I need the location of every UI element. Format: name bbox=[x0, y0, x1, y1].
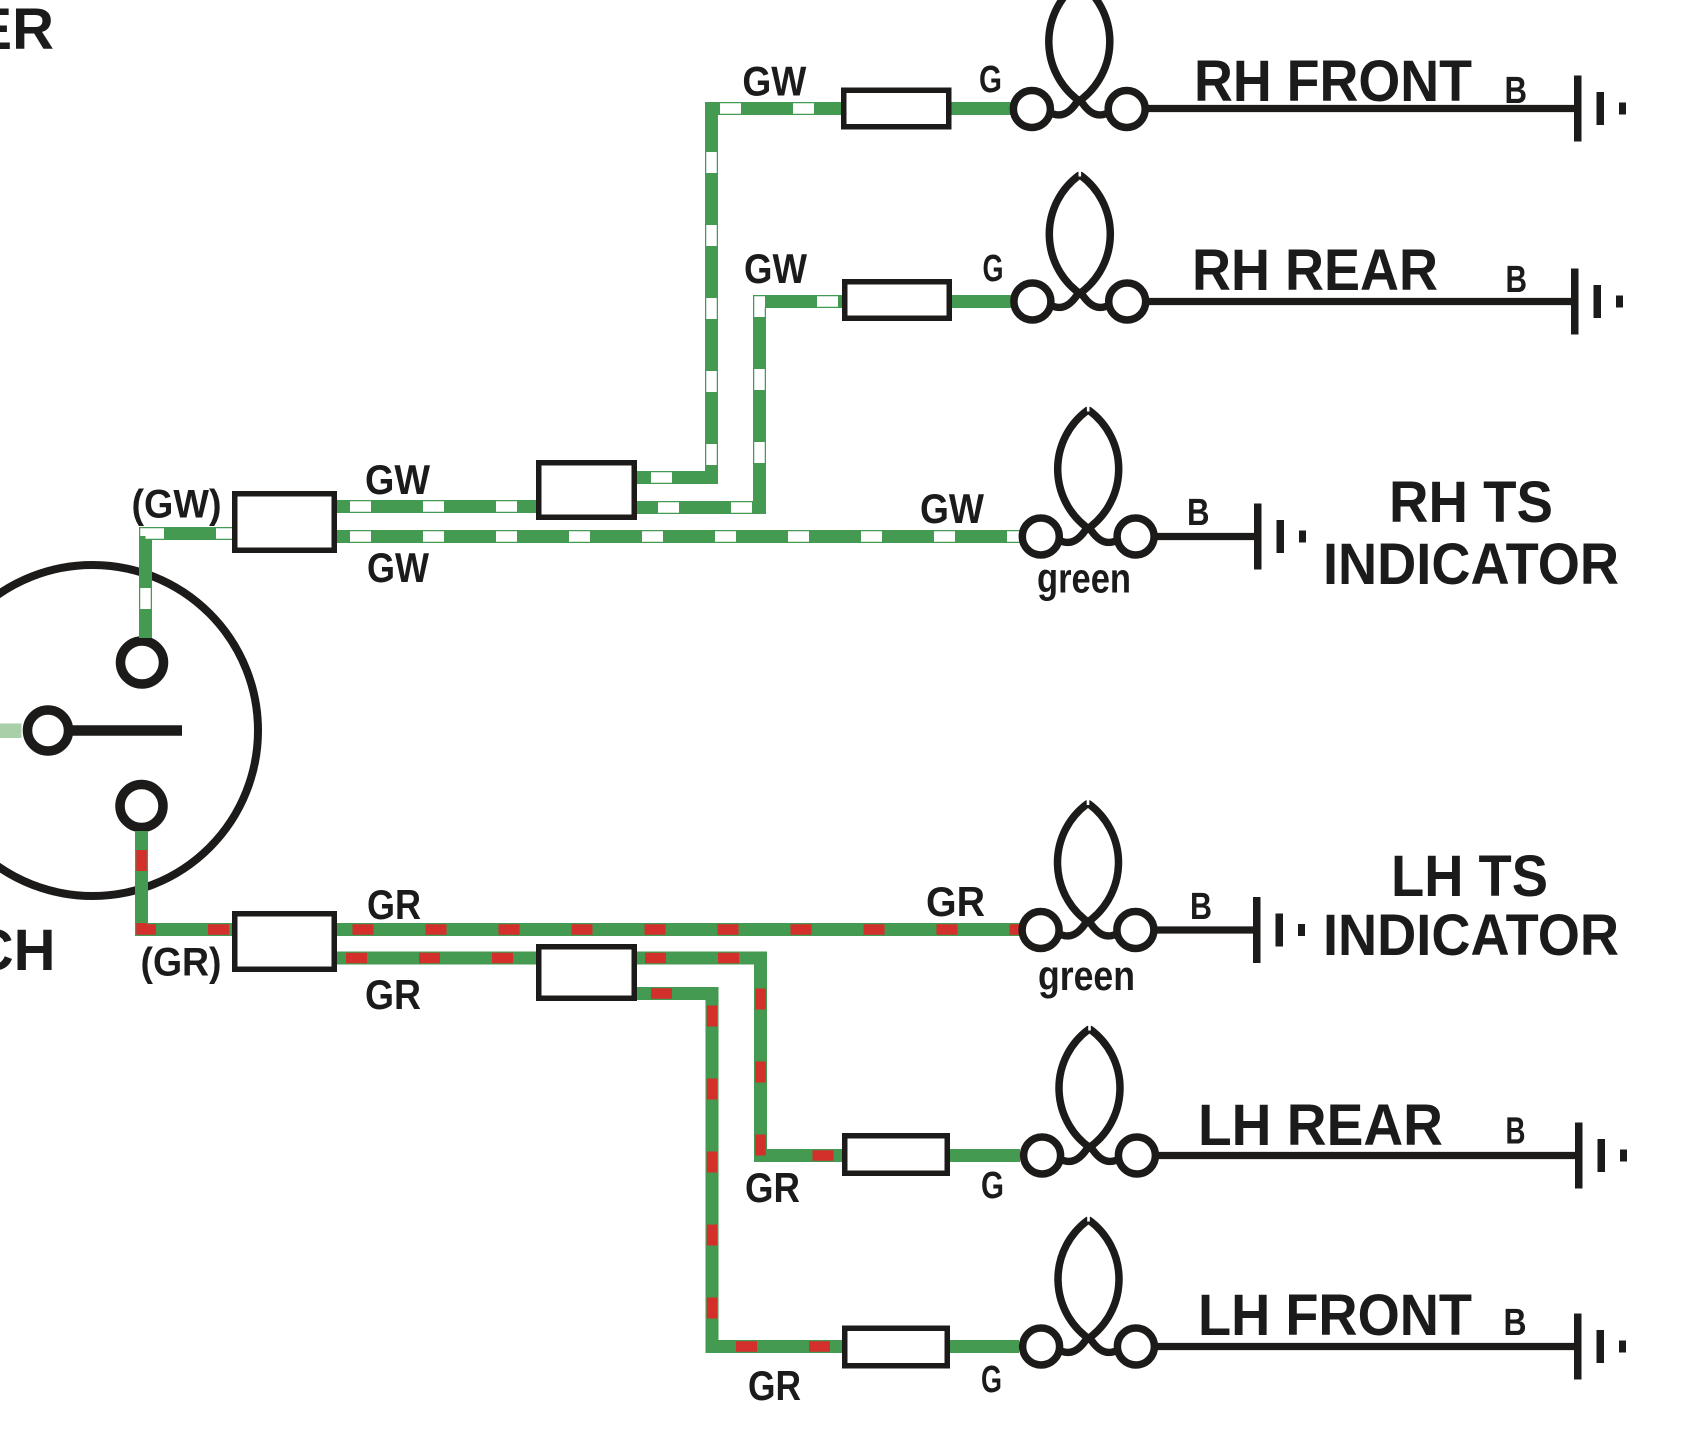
svg-text:GW: GW bbox=[365, 456, 430, 503]
svg-text:(GW): (GW) bbox=[132, 483, 222, 527]
svg-text:B: B bbox=[1504, 1302, 1527, 1344]
connector LH FRONT bbox=[845, 1328, 948, 1366]
wire GR junction to LH REAR bbox=[637, 958, 842, 1156]
connector LH REAR bbox=[845, 1136, 948, 1174]
svg-text:RH REAR: RH REAR bbox=[1192, 238, 1438, 303]
lamp LH TS indicator bbox=[1022, 796, 1154, 949]
wire G LH REAR connector to lamp bbox=[950, 1149, 1020, 1162]
svg-text:B: B bbox=[1505, 70, 1528, 112]
connector RH FRONT bbox=[844, 90, 949, 127]
svg-text:G: G bbox=[979, 59, 1002, 101]
svg-text:GR: GR bbox=[365, 971, 421, 1018]
black wire RH REAR to ground bbox=[1147, 298, 1572, 305]
connector (GR) bbox=[235, 914, 335, 970]
lamp RH TS indicator bbox=[1022, 403, 1154, 556]
svg-text:LH FRONT: LH FRONT bbox=[1198, 1283, 1472, 1348]
connector RH REAR bbox=[845, 282, 950, 319]
svg-text:G: G bbox=[983, 248, 1004, 290]
junction box GW bbox=[539, 463, 635, 518]
svg-text:LH TS: LH TS bbox=[1391, 844, 1548, 909]
ground LH REAR bbox=[1575, 1123, 1627, 1189]
wire GW main run to RH TS indicator bbox=[337, 530, 1021, 543]
faded input wire bbox=[0, 724, 22, 739]
svg-text:B: B bbox=[1506, 1111, 1526, 1153]
svg-text:LH REAR: LH REAR bbox=[1198, 1093, 1443, 1158]
svg-text:G: G bbox=[981, 1165, 1004, 1207]
ground RH FRONT bbox=[1574, 76, 1626, 142]
black wire LH TS to ground bbox=[1155, 926, 1254, 933]
svg-text:B: B bbox=[1187, 492, 1210, 534]
switch lever bbox=[70, 725, 182, 736]
wire G RH REAR connector to lamp bbox=[952, 295, 1015, 308]
svg-text:GW: GW bbox=[742, 57, 806, 104]
ground RH TS bbox=[1254, 504, 1306, 570]
black wire RH TS to ground bbox=[1155, 533, 1255, 540]
lamp LH REAR bbox=[1024, 1022, 1156, 1175]
black wire RH FRONT to ground bbox=[1146, 105, 1574, 112]
wire GW from switch to connector bbox=[146, 534, 233, 639]
wire GR junction to LH FRONT bbox=[637, 994, 842, 1347]
wire GR lower branch connector to junction bbox=[337, 952, 536, 965]
svg-text:GR: GR bbox=[926, 878, 985, 925]
svg-text:(GR): (GR) bbox=[141, 941, 222, 985]
lamp RH REAR bbox=[1014, 168, 1146, 321]
junction box GR bbox=[539, 947, 635, 999]
svg-text:GR: GR bbox=[745, 1164, 800, 1211]
svg-text:GR: GR bbox=[367, 881, 421, 928]
svg-text:green: green bbox=[1038, 952, 1135, 999]
wire GR main run to LH TS indicator bbox=[337, 923, 1021, 936]
svg-text:GW: GW bbox=[744, 245, 807, 292]
svg-text:B: B bbox=[1506, 259, 1528, 301]
wire G RH FRONT connector to lamp bbox=[952, 102, 1015, 115]
wire GW upper branch connector to junction bbox=[337, 500, 536, 513]
svg-text:GR: GR bbox=[748, 1362, 801, 1409]
svg-text:INDICATOR: INDICATOR bbox=[1323, 532, 1619, 597]
svg-text:SWITCH: SWITCH bbox=[0, 918, 56, 983]
wire GR from switch to connector bbox=[142, 831, 233, 930]
switch contact left (input) bbox=[28, 710, 69, 751]
switch contact bottom (GR) bbox=[120, 785, 163, 828]
ground LH FRONT bbox=[1574, 1314, 1626, 1380]
ground LH TS bbox=[1253, 897, 1305, 963]
svg-text:B: B bbox=[1190, 886, 1212, 928]
switch contact top (GW) bbox=[121, 641, 164, 684]
svg-text:G: G bbox=[981, 1359, 1002, 1401]
lamp RH FRONT bbox=[1013, 0, 1145, 128]
lamp LH FRONT bbox=[1023, 1213, 1155, 1366]
svg-text:GW: GW bbox=[367, 544, 429, 591]
connector (GW) bbox=[235, 494, 335, 551]
svg-text:FLASHER: FLASHER bbox=[0, 0, 54, 62]
turn signal switch body bbox=[0, 565, 258, 896]
black wire LH FRONT to ground bbox=[1155, 1343, 1574, 1350]
svg-text:GW: GW bbox=[920, 485, 984, 532]
wire GW junction to RH FRONT bbox=[637, 109, 841, 478]
svg-text:RH TS: RH TS bbox=[1389, 470, 1553, 535]
wire G LH FRONT connector to lamp bbox=[950, 1340, 1019, 1353]
svg-text:INDICATOR: INDICATOR bbox=[1323, 903, 1619, 968]
black wire LH REAR to ground bbox=[1156, 1152, 1575, 1159]
svg-text:RH FRONT: RH FRONT bbox=[1194, 49, 1472, 114]
ground RH REAR bbox=[1571, 269, 1623, 335]
wire GW junction to RH REAR bbox=[637, 302, 842, 508]
svg-text:green: green bbox=[1037, 555, 1131, 602]
